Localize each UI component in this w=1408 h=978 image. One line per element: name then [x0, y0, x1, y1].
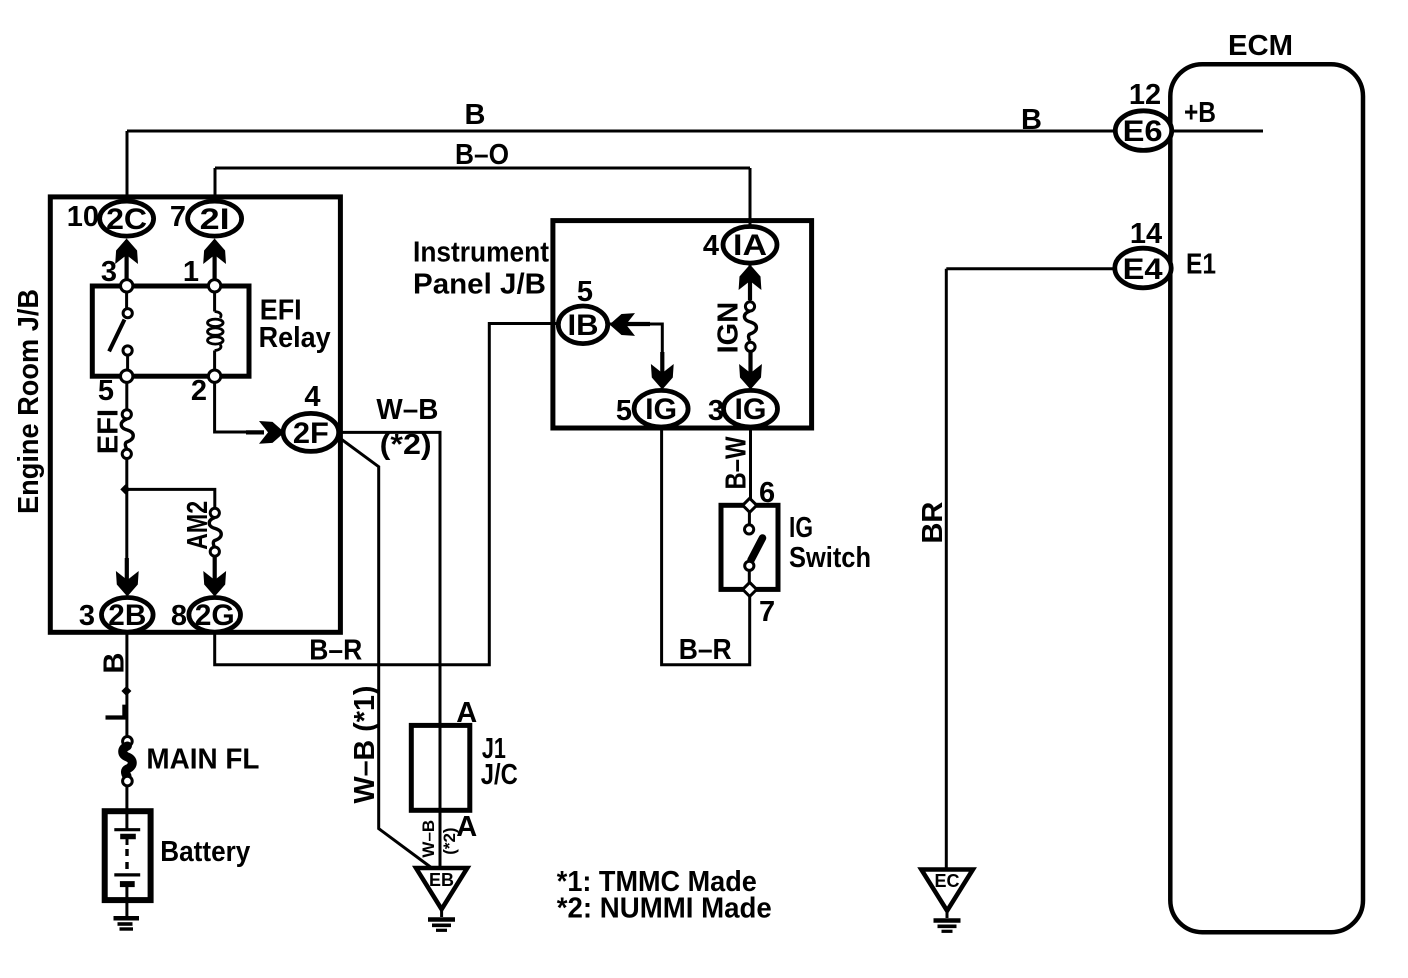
wire IGN fuse to IG3 arrow [749, 350, 752, 388]
svg-text:2G: 2G [195, 599, 235, 632]
svg-text:ECM: ECM [1228, 30, 1293, 62]
svg-text:3: 3 [708, 395, 724, 427]
svg-text:W–B: W–B [376, 394, 438, 426]
junction J1 J/C box [411, 725, 470, 810]
wire IG5 to IG switch pin7 (B-R) [662, 427, 750, 665]
svg-text:L: L [100, 704, 132, 722]
wire B-R from 2G to IB [215, 324, 560, 665]
arrow down into 2G [213, 556, 217, 585]
connector 2I pin7 [188, 201, 242, 236]
svg-text:Instrument: Instrument [413, 237, 549, 269]
wire relay pin5 to EFI fuse [125, 380, 128, 411]
svg-text:3: 3 [79, 600, 95, 632]
svg-text:E6: E6 [1123, 115, 1163, 148]
svg-text:5: 5 [577, 276, 593, 308]
wire IA arrow stub [749, 262, 752, 303]
battery internal plates [114, 812, 140, 900]
svg-text:5: 5 [98, 375, 114, 407]
svg-text:W–B: W–B [419, 820, 438, 858]
junction node dot B/L [121, 686, 131, 696]
Instrument Panel J/B box [553, 221, 812, 428]
wire W-B *2 through J/C to EB ground [439, 727, 442, 868]
svg-text:B–R: B–R [679, 634, 732, 666]
svg-text:EFI: EFI [92, 409, 124, 454]
arrow up into 2C [124, 250, 128, 280]
connector 2G pin8 [189, 598, 241, 633]
wire B-O drop to IA [749, 168, 752, 228]
svg-text:B–W: B–W [720, 436, 752, 490]
svg-text:A: A [456, 697, 477, 729]
svg-text:IB: IB [568, 309, 599, 342]
svg-text:12: 12 [1129, 79, 1161, 111]
arrow right into 2F [246, 430, 264, 434]
svg-text:E4: E4 [1123, 253, 1163, 286]
svg-text:B–R: B–R [309, 635, 362, 667]
battery ground [114, 900, 140, 929]
IG switch contact [743, 498, 763, 596]
arrow up into 2I [213, 250, 217, 280]
svg-text:3: 3 [101, 256, 117, 288]
connector E6 pin12 [1115, 111, 1171, 151]
EFI relay box [92, 286, 249, 376]
Battery box [105, 811, 151, 900]
wire IB arrow to IG5 arrow [604, 324, 662, 364]
svg-text:Battery: Battery [160, 836, 250, 868]
wire W-B *2 from 2F to J/C [338, 432, 440, 727]
IG switch box [721, 505, 778, 589]
svg-text:1: 1 [183, 256, 199, 288]
wire +B inside ECM [1170, 130, 1263, 133]
connector IA pin4 [723, 227, 777, 264]
ECM box [1170, 64, 1363, 932]
arrow up into IA [748, 276, 752, 300]
svg-text:IG: IG [735, 393, 767, 426]
svg-text:2B: 2B [108, 599, 146, 632]
wire relay pin2 to 2F arrow [215, 378, 262, 432]
wire 2I arrow stub [213, 240, 216, 282]
EFI relay coil [208, 280, 224, 383]
Engine Room J/B box [50, 197, 340, 632]
wire BR vertical to EC ground [945, 269, 948, 868]
wire BR to E4 [946, 267, 1115, 270]
svg-text:EB: EB [429, 870, 454, 890]
connector 2B pin3 [102, 598, 154, 633]
connector 2F pin4 [283, 413, 339, 451]
svg-text:B: B [465, 99, 486, 131]
svg-text:BR: BR [917, 502, 949, 544]
svg-text:B: B [1021, 104, 1042, 136]
svg-text:J/C: J/C [481, 759, 518, 791]
svg-text:5: 5 [616, 395, 632, 427]
svg-text:Panel J/B: Panel J/B [413, 269, 546, 301]
svg-text:Engine Room J/B: Engine Room J/B [13, 289, 45, 514]
EFI fuse [121, 410, 133, 459]
wire EFI fuse to 2B arrow [125, 457, 128, 594]
MAIN FL fusible link [123, 737, 133, 786]
svg-text:IG: IG [645, 393, 677, 426]
wire B-W from IG3 to IG switch pin6 [749, 427, 752, 499]
arrow left into IB [626, 322, 650, 326]
svg-text:2I: 2I [200, 203, 230, 236]
svg-text:IGN: IGN [713, 302, 745, 354]
svg-text:AM2: AM2 [182, 501, 214, 550]
svg-text:IG: IG [789, 512, 813, 544]
svg-text:Switch: Switch [789, 542, 871, 574]
svg-text:2C: 2C [106, 203, 147, 236]
EFI relay switch contact [109, 280, 133, 383]
svg-text:B–O: B–O [455, 139, 509, 171]
svg-text:+B: +B [1184, 97, 1216, 129]
connector E4 pin14 [1115, 248, 1171, 288]
svg-text:14: 14 [1130, 218, 1162, 250]
svg-text:W–B (*1): W–B (*1) [349, 686, 381, 804]
svg-text:7: 7 [759, 596, 775, 628]
wire B-O horizontal [215, 167, 750, 170]
ground EC triangle [921, 870, 973, 932]
svg-text:(*2): (*2) [380, 429, 432, 461]
svg-text:2F: 2F [293, 417, 329, 450]
svg-text:Relay: Relay [259, 322, 331, 354]
arrow down into 2B [125, 558, 129, 585]
connector 2C pin10 [100, 201, 154, 236]
svg-text:10: 10 [67, 201, 99, 233]
wire branch to AM2 fuse [125, 489, 215, 509]
connector IB pin5 [558, 306, 607, 344]
svg-text:B: B [99, 653, 131, 674]
AM2 fuse [209, 508, 221, 556]
svg-text:6: 6 [759, 477, 775, 509]
wire W-B *1 diagonal from 2F [339, 438, 433, 869]
IGN fuse [744, 302, 756, 352]
arrow down into IG5 [660, 352, 664, 378]
svg-text:A: A [456, 811, 477, 843]
svg-text:4: 4 [304, 381, 320, 413]
ground EB triangle [416, 868, 467, 930]
svg-text:4: 4 [703, 230, 719, 262]
wire 2B to battery [125, 632, 128, 738]
wire AM2 fuse to 2G arrow [213, 555, 216, 594]
arrow down into IG3 [748, 352, 752, 378]
svg-text:E1: E1 [1186, 249, 1216, 281]
wire MAIN FL to battery [125, 785, 128, 812]
svg-text:MAIN FL: MAIN FL [146, 744, 259, 776]
svg-text:*2: NUMMI Made: *2: NUMMI Made [557, 893, 772, 925]
wire B top horizontal [127, 130, 1115, 133]
connector IG pin3 [724, 390, 778, 427]
svg-text:IA: IA [733, 229, 767, 262]
junction node dot EFI/AM2 [120, 484, 130, 494]
svg-text:8: 8 [171, 600, 187, 632]
wire 2C arrow stub [125, 240, 128, 282]
svg-text:7: 7 [170, 201, 186, 233]
svg-text:(*2): (*2) [440, 827, 459, 854]
wire B drop to 2C [126, 131, 129, 203]
connector IG pin5 [634, 390, 688, 427]
svg-text:2: 2 [191, 375, 207, 407]
svg-text:EC: EC [935, 871, 960, 891]
wire B-O drop from 2I [214, 168, 217, 203]
